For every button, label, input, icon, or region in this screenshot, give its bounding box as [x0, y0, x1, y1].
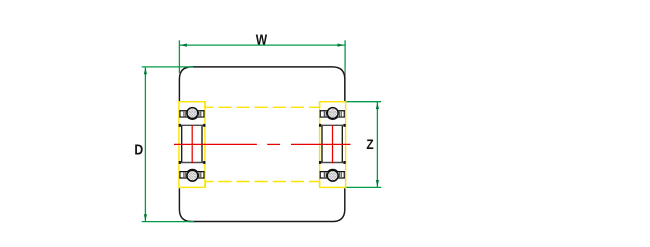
W arrowhead left	[180, 44, 187, 47]
bore wall right bearing outboard	[341, 126, 343, 162]
bore top bar left end blocks	[179, 124, 181, 127]
bore wall left bearing inboard	[201, 126, 203, 162]
dimension D extension line top	[142, 66, 194, 68]
red axis vertical right bearing	[332, 125, 334, 163]
dimension W line	[179, 44, 345, 46]
hub step jog top right	[319, 102, 321, 108]
bore wall left bearing outboard	[181, 126, 183, 162]
dimension D extension line bottom	[142, 221, 194, 223]
W arrowhead right	[338, 44, 345, 47]
wheel body outline	[179, 67, 344, 222]
bore top bar right bearing	[320, 124, 345, 126]
bearing right bottom half	[320, 169, 345, 181]
bore bottom bar right bearing	[320, 162, 345, 164]
bearing left top half	[179, 108, 204, 120]
D arrowhead bottom	[144, 214, 147, 221]
dimension Z line	[376, 102, 378, 188]
dimension W extension line right	[344, 40, 346, 67]
svg-text:D: D	[134, 142, 143, 158]
red centerline short dash	[267, 143, 280, 145]
svg-text:Z: Z	[366, 136, 374, 152]
D arrowhead top	[144, 68, 147, 75]
red centerline segment right	[291, 143, 350, 145]
dimension D line	[144, 67, 146, 222]
bearing left bottom half	[179, 169, 204, 181]
bore top bar left bearing	[179, 124, 204, 126]
hub outline dashed bottom connector	[205, 181, 319, 183]
bore top bar right end blocks	[319, 124, 321, 127]
dimension W extension line left	[178, 40, 180, 73]
hub step jog bottom right	[319, 182, 321, 188]
bearing housing box right	[320, 102, 346, 188]
hub step jog top left	[204, 102, 206, 108]
hub step jog bottom left	[204, 182, 206, 188]
dimension Z extension line bottom	[346, 186, 381, 188]
bore bottom bar left end blocks	[179, 161, 181, 164]
svg-text:W: W	[256, 32, 268, 48]
red centerline segment left	[174, 143, 257, 145]
bearing housing box left	[179, 102, 205, 188]
red axis vertical left bearing	[191, 125, 193, 163]
bore bottom bar right end blocks	[319, 161, 321, 164]
dimension Z extension line top	[346, 101, 381, 103]
bore bottom bar left bearing	[179, 162, 204, 164]
hub outline dashed top connector	[205, 106, 319, 108]
bore wall right bearing inboard	[321, 126, 323, 162]
bearing right top half	[320, 108, 345, 120]
wire W-Z extension link right (under wheel edge)	[344, 68, 346, 102]
Z arrowhead bottom	[376, 180, 379, 187]
Z arrowhead top	[376, 102, 379, 109]
